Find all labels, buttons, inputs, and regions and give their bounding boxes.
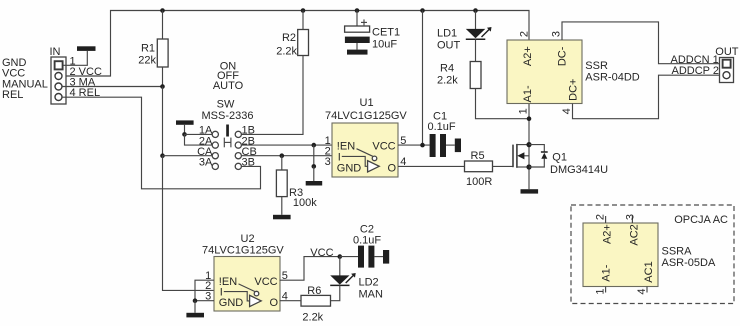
svg-text:VCC: VCC bbox=[254, 276, 277, 288]
ground bar right of C2 bbox=[383, 250, 389, 264]
junction MA / R1 bbox=[160, 84, 165, 89]
wire R4 bottom to A1- node bbox=[476, 89, 530, 119]
wire R5 to Q1 gate bbox=[493, 165, 514, 167]
wire rail to R1 top bbox=[162, 11, 164, 40]
svg-text:74LVC1G125GV: 74LVC1G125GV bbox=[202, 245, 284, 257]
junction U2 pin3 bbox=[193, 298, 198, 303]
wire REL net: IN pin4 to 3B loop bbox=[62, 97, 261, 189]
wire U2 pin1 to pin3 ground bbox=[195, 280, 214, 301]
junction VCC / C2 / LD2 bbox=[338, 254, 343, 259]
junction rail at R1 bbox=[160, 8, 165, 13]
connector IN bbox=[50, 46, 67, 104]
wire 2B to U1 pin1 bbox=[241, 144, 332, 146]
svg-text:SSR: SSR bbox=[585, 60, 608, 72]
ground bar right of C1 bbox=[455, 139, 461, 153]
svg-text:AC1: AC1 bbox=[643, 261, 655, 282]
IN signal name labels bbox=[2, 57, 48, 101]
wire U1 pin5 to VCC drop bbox=[398, 144, 430, 146]
svg-text:VCC: VCC bbox=[310, 247, 333, 259]
Q1 body diode bbox=[529, 145, 548, 167]
svg-text:0.1uF: 0.1uF bbox=[353, 234, 381, 246]
junction rail at LD1 bbox=[473, 8, 478, 13]
ground bar under U2 bbox=[186, 313, 204, 318]
relay SSR ASR-04DD bbox=[507, 40, 582, 104]
svg-text:100k: 100k bbox=[293, 197, 317, 209]
svg-text:100R: 100R bbox=[466, 176, 492, 188]
relay SSRA ASR-05DA bbox=[583, 223, 658, 287]
wire SSR pin3 DC- to OUT pin1 bbox=[562, 22, 720, 64]
svg-text:DC-: DC- bbox=[557, 46, 569, 66]
LED LD1 bbox=[466, 27, 492, 39]
resistor R5 bbox=[465, 161, 493, 172]
svg-text:R4: R4 bbox=[440, 63, 454, 75]
ground bar under R3 bbox=[273, 215, 291, 220]
resistor R4 bbox=[470, 62, 481, 89]
junction switch ground bbox=[182, 132, 187, 137]
wire rail to R2 top bbox=[302, 11, 304, 30]
wire R1 bottom to MA junction bbox=[162, 67, 164, 87]
resistor R6 bbox=[301, 295, 331, 306]
wire R3 bottom to ground bbox=[281, 197, 283, 215]
wire R3 top stub bbox=[281, 156, 283, 170]
junction U1 pin1 / EN ground bbox=[312, 143, 317, 148]
U2 pin number labels bbox=[205, 270, 288, 303]
wire U1 pin4 to R5 bbox=[398, 165, 465, 167]
svg-text:MSS-2336: MSS-2336 bbox=[202, 110, 254, 122]
wire SSR pin1 down through Q1 to ground bbox=[528, 104, 530, 190]
op-amp buffer U1 74LVC1G125GV bbox=[332, 123, 398, 177]
svg-text:A1-: A1- bbox=[601, 264, 613, 281]
wire switch ground stub bbox=[184, 125, 186, 135]
svg-text:A2+: A2+ bbox=[522, 46, 534, 66]
svg-text:GND: GND bbox=[219, 297, 244, 309]
wire C1 to ground bbox=[446, 144, 455, 146]
svg-text:ASR-05DA: ASR-05DA bbox=[662, 257, 716, 269]
wire U2 ground stub bbox=[194, 301, 196, 313]
wire CET1 to ground bbox=[356, 43, 358, 50]
switch pin labels B bbox=[242, 125, 257, 169]
svg-text:ASR-04DD: ASR-04DD bbox=[585, 72, 639, 84]
svg-text:2: 2 bbox=[519, 31, 531, 37]
svg-text:IN: IN bbox=[50, 46, 61, 58]
svg-text:1: 1 bbox=[517, 108, 529, 114]
svg-text:A1-: A1- bbox=[522, 85, 534, 102]
svg-text:REL: REL bbox=[2, 89, 23, 101]
svg-text:Q1: Q1 bbox=[552, 152, 567, 164]
svg-text:O: O bbox=[269, 297, 278, 309]
LED LD2 bbox=[330, 273, 356, 285]
wire CA junction to switch CA bbox=[163, 155, 213, 157]
U1 pin number labels bbox=[325, 135, 407, 168]
svg-text:R5: R5 bbox=[471, 150, 485, 162]
junction rail at CET1 bbox=[355, 8, 360, 13]
ground bar under CET1 bbox=[347, 50, 368, 55]
svg-text:SSRA: SSRA bbox=[662, 246, 693, 258]
wire U1 pin3 stub to ground bbox=[313, 166, 315, 181]
resistor R2 bbox=[298, 30, 309, 56]
junction rail at R2 bbox=[301, 8, 306, 13]
svg-text:OUT: OUT bbox=[715, 46, 739, 58]
svg-text:U1: U1 bbox=[360, 97, 374, 109]
wire rail down to U1 pin5 / C1 bbox=[422, 11, 424, 146]
svg-text:0.1uF: 0.1uF bbox=[428, 121, 456, 133]
svg-text:R1: R1 bbox=[141, 42, 155, 54]
svg-text:MAN: MAN bbox=[359, 289, 384, 301]
svg-text:GND: GND bbox=[337, 163, 362, 175]
svg-text:R6: R6 bbox=[307, 285, 321, 297]
wire MA junction down to CA junction bbox=[162, 87, 164, 156]
svg-text:1: 1 bbox=[595, 288, 607, 294]
wire IN pin1 to ground bbox=[63, 51, 87, 65]
svg-text:R2: R2 bbox=[282, 32, 296, 44]
wire VCC node to C2 bbox=[340, 256, 358, 258]
wire MA net down to U2 pin2 bbox=[163, 156, 215, 291]
svg-text:CET1: CET1 bbox=[372, 27, 400, 39]
resistor R3 bbox=[276, 170, 287, 197]
transistor Q1 DMG3414U bbox=[513, 144, 529, 168]
wire MA net: IN pin3 to R1 bottom junction bbox=[62, 86, 163, 88]
svg-text:10uF: 10uF bbox=[372, 39, 397, 51]
capacitor C2 bbox=[358, 246, 374, 268]
wire VCC node down to LD2 bbox=[339, 257, 341, 276]
svg-text:A2+: A2+ bbox=[601, 224, 613, 244]
svg-text:ADDCP 2: ADDCP 2 bbox=[672, 65, 719, 77]
svg-text:AC2: AC2 bbox=[629, 224, 641, 245]
wire rail to LED LD1 bbox=[475, 11, 477, 30]
wire VCC top rail from IN pin2 up across to SSR pin2 bbox=[63, 11, 530, 77]
capacitor C1 bbox=[430, 134, 446, 157]
SSRA pin stubs bbox=[606, 216, 647, 293]
IN pin labels bbox=[70, 55, 102, 99]
svg-text:OUT: OUT bbox=[437, 39, 461, 51]
junction U1 pin5 / C1 bbox=[420, 143, 425, 148]
svg-text:DMG3414U: DMG3414U bbox=[550, 164, 608, 176]
wire R6 to U2 pin4 bbox=[280, 300, 302, 302]
switch pin labels A bbox=[197, 125, 213, 169]
svg-text:74LVC1G125GV: 74LVC1G125GV bbox=[325, 110, 407, 122]
svg-text:SW: SW bbox=[217, 99, 235, 111]
ground bar above IN pin1 bbox=[77, 46, 96, 51]
wire LD2 to R6 bbox=[331, 285, 340, 300]
svg-text:VCC: VCC bbox=[372, 141, 395, 153]
svg-text:4: 4 bbox=[636, 288, 648, 294]
wire junction to 1A bbox=[185, 133, 213, 135]
wire rail to CET1 bbox=[356, 11, 358, 27]
U1 internal buffer symbol bbox=[342, 149, 379, 172]
junction CB / R3 bbox=[280, 153, 285, 158]
ground bar at U1 bbox=[306, 181, 323, 186]
svg-text:DC+: DC+ bbox=[568, 79, 580, 101]
svg-text:3: 3 bbox=[550, 31, 562, 37]
svg-text:2.2k: 2.2k bbox=[302, 311, 323, 323]
junction Q1 source bbox=[526, 164, 531, 169]
svg-text:OPCJA AC: OPCJA AC bbox=[674, 214, 728, 226]
ground bar at switch bbox=[176, 120, 194, 124]
ground bar under Q1 bbox=[521, 189, 539, 193]
svg-text:2: 2 bbox=[595, 214, 607, 220]
wire LD1 to R4 bbox=[475, 39, 477, 61]
U2 internal buffer symbol bbox=[224, 284, 261, 307]
svg-text:3: 3 bbox=[624, 214, 636, 220]
switch actuator bbox=[224, 125, 231, 148]
svg-text:LD1: LD1 bbox=[437, 27, 457, 39]
junction CA bbox=[160, 153, 165, 158]
svg-text:22k: 22k bbox=[138, 54, 156, 66]
svg-text:LD2: LD2 bbox=[359, 276, 379, 288]
wire junction down to 2A bbox=[185, 134, 213, 145]
switch SW labels bbox=[202, 60, 254, 122]
wire EN junction down to pin3 bbox=[313, 145, 315, 166]
svg-text:3: 3 bbox=[325, 156, 331, 168]
SSRA pin number labels bbox=[595, 214, 649, 295]
wire CB to U1 pin2 bbox=[241, 155, 332, 157]
resistor R1 bbox=[157, 39, 168, 67]
svg-text:2.2k: 2.2k bbox=[437, 74, 458, 86]
junction rail at C1 drop bbox=[420, 8, 425, 13]
svg-text:3A: 3A bbox=[199, 157, 213, 169]
wire R2 bottom down to switch 1B bbox=[241, 56, 303, 135]
svg-text:3B: 3B bbox=[242, 157, 255, 169]
junction Q1 drain bbox=[526, 142, 531, 147]
svg-text:O: O bbox=[387, 163, 396, 175]
wire SSR pin4 DC+ to OUT pin2 bbox=[573, 75, 720, 119]
wire U2 pin5 up to VCC node bbox=[280, 257, 340, 281]
svg-text:U2: U2 bbox=[241, 233, 255, 245]
svg-text:AUTO: AUTO bbox=[213, 80, 244, 92]
junction U1 pin3 bbox=[312, 164, 317, 169]
svg-text:I: I bbox=[338, 151, 341, 163]
connector OUT bbox=[715, 46, 739, 83]
SSR pin number labels bbox=[517, 31, 573, 114]
op-amp buffer U2 74LVC1G125GV bbox=[214, 257, 280, 312]
switch SW MSS-2336 contacts bbox=[212, 131, 241, 169]
capacitor CET1 bbox=[345, 19, 370, 43]
svg-text:2.2k: 2.2k bbox=[276, 45, 297, 57]
svg-text:4: 4 bbox=[561, 108, 573, 114]
junction A1- node bbox=[527, 116, 532, 121]
wire C2 to ground bbox=[374, 256, 383, 258]
dashed option box OPCJA AC bbox=[571, 205, 734, 304]
